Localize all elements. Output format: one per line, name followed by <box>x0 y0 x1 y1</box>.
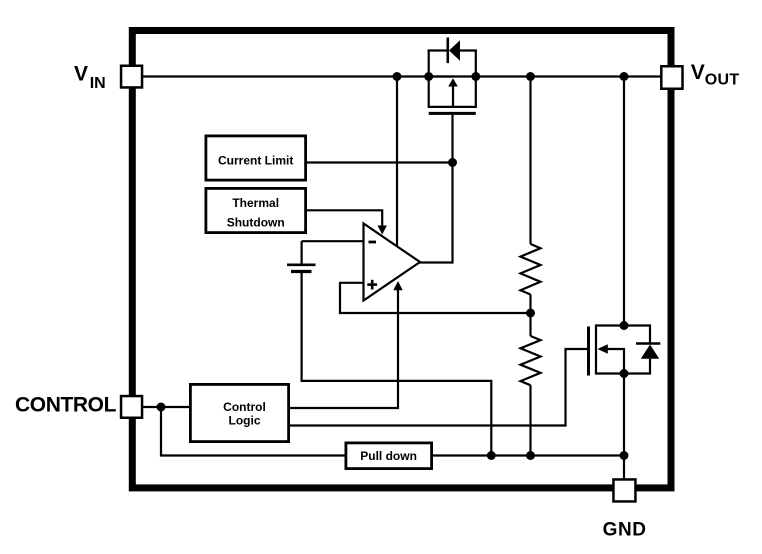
wire: R1 to tap <box>529 295 531 314</box>
node: reference ground junction <box>487 451 496 460</box>
transistor Q1: top segment right part <box>459 49 477 51</box>
transistor Q2: channel vertical <box>595 324 597 374</box>
diode D1 body diode triangle <box>449 40 460 60</box>
wire: Q1 channel stub <box>429 75 454 77</box>
node: top rail junction to resistor divider <box>526 72 535 81</box>
svg-text:V: V <box>691 61 705 84</box>
block: Current Limit <box>206 136 306 180</box>
wire: reference bottom lead to ground rail <box>302 273 492 456</box>
wire: inverting input from reference <box>302 240 364 242</box>
transistor Q1: gate plate <box>429 112 476 115</box>
node: top rail junction at supply drop <box>393 72 402 81</box>
transistor Q2: top segment <box>596 324 650 326</box>
wire: VIN top rail to VOUT <box>143 75 661 77</box>
diode D2 body diode: top lead <box>649 324 651 343</box>
svg-text:Control: Control <box>223 400 266 414</box>
transistor Q2: bottom segment <box>596 372 650 374</box>
block: Pull down <box>346 443 432 469</box>
reference V1 bandgap: top plate <box>287 263 316 266</box>
diode D2 bottom lead <box>649 359 651 375</box>
svg-text:Logic: Logic <box>229 414 261 428</box>
wire: Q2 bulk connection <box>607 349 624 374</box>
arrow into op-amp top edge <box>378 226 387 235</box>
wire: reference top lead <box>301 241 303 263</box>
node: Q1 drain on rail <box>471 72 480 81</box>
svg-text:Pull down: Pull down <box>360 449 417 463</box>
wire: resistor divider top lead <box>529 77 531 245</box>
transistor Q1: top segment left part <box>428 49 448 51</box>
transistor Q1 pass PMOS: left source vertical <box>428 50 430 107</box>
transistor Q1 bulk arrow up <box>448 78 458 86</box>
wire: control logic to Q2 gate <box>290 349 588 426</box>
wire: non-inverting input from feedback tap <box>340 283 531 313</box>
node: control junction <box>157 403 166 412</box>
resistor R2 <box>521 336 541 385</box>
transistor Q1: bottom segment <box>428 106 477 108</box>
pad: VOUT pin <box>661 66 682 89</box>
op-amp U1 error amplifier <box>364 224 421 301</box>
block: Thermal Shutdown <box>206 188 306 232</box>
reference V1 bandgap: bottom plate <box>291 270 312 273</box>
svg-text:Shutdown: Shutdown <box>227 216 285 230</box>
node: top rail junction to Q2 drain <box>620 72 629 81</box>
transistor Q2 bulk arrow left <box>598 344 608 354</box>
wire: ground rail from pull down to GND <box>433 454 624 456</box>
diode D2 cathode bar <box>636 342 660 344</box>
svg-text:Thermal: Thermal <box>232 196 279 210</box>
node: gate line / current limit junction <box>448 158 457 167</box>
resistor R1 <box>521 244 541 295</box>
op-amp minus sign <box>369 241 377 244</box>
wire: CONTROL pin to control logic <box>143 406 189 408</box>
svg-text:CONTROL: CONTROL <box>15 394 117 417</box>
svg-text:IN: IN <box>90 75 106 92</box>
wire: tap to R2 <box>529 313 531 336</box>
wire: R2 bottom lead to ground rail <box>529 385 531 455</box>
node: GND junction <box>620 451 629 460</box>
wire: Q1 gate lead down to op-amp output <box>419 115 453 263</box>
node: Q2 source <box>620 369 629 378</box>
wire: Q2 drain from top rail <box>623 77 625 326</box>
wire: control junction down to pull down <box>161 407 345 456</box>
svg-text:OUT: OUT <box>705 71 740 88</box>
pad: GND pin <box>613 479 635 501</box>
svg-text:V: V <box>74 63 88 86</box>
node: Q2 drain <box>620 321 629 330</box>
node: feedback tap <box>526 309 535 318</box>
op-amp plus sign <box>367 283 377 286</box>
pad: CONTROL pin <box>121 396 142 418</box>
wire: thermal shutdown output to op-amp <box>306 210 382 226</box>
wire: VIN supply drop to op-amp U1 top <box>396 77 398 247</box>
diode D2 triangle <box>641 345 659 359</box>
block: Control Logic <box>190 384 288 441</box>
svg-text:Current Limit: Current Limit <box>218 154 293 168</box>
transistor Q1: right drain vertical <box>475 50 477 107</box>
diode D1 body diode cathode bar <box>446 38 449 64</box>
svg-text:GND: GND <box>603 520 647 541</box>
arrow into op-amp bottom edge <box>393 281 402 290</box>
wire: current limit output to Q1 gate <box>306 161 453 163</box>
transistor Q2 NMOS: gate plate <box>587 327 590 376</box>
wire: enable to op-amp plus side <box>290 290 398 409</box>
node: divider ground junction <box>526 451 535 460</box>
IC boundary box <box>132 31 671 488</box>
node: Q1 source on rail <box>424 72 433 81</box>
wire: Q2 source to GND pad <box>623 374 625 480</box>
pad: VIN pin <box>121 66 142 88</box>
